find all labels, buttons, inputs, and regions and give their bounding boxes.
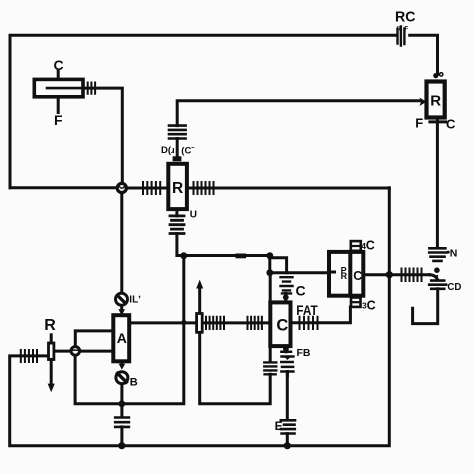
svg-text:FAT: FAT <box>296 303 318 318</box>
svg-text:C: C <box>276 316 288 334</box>
lamp B <box>116 372 128 384</box>
junction dot mid bus right <box>266 252 273 259</box>
junction dot below C box <box>283 346 289 352</box>
pot R bottom-left box <box>49 343 54 360</box>
arrow below A <box>119 364 126 370</box>
hatch ticks mid of A wire <box>206 317 224 329</box>
wire coil bottom corner to mid bus <box>177 234 270 256</box>
junction dot cap C bottom <box>283 294 289 300</box>
hatch ticks right of center R <box>194 182 214 194</box>
svg-text:F: F <box>415 116 423 131</box>
svg-text:E: E <box>275 419 283 433</box>
svg-text:A: A <box>117 330 127 346</box>
hatch ticks left of pot R <box>21 350 37 362</box>
dot and circle at right R top <box>433 73 438 78</box>
junction dot B line on loop <box>118 400 125 407</box>
capacitor CD plates <box>429 281 446 289</box>
capacitor plates on B line <box>115 418 129 427</box>
arrow into right R <box>419 97 426 106</box>
wire C box bottom-left down to cap <box>269 346 272 362</box>
svg-text:B: B <box>130 377 138 389</box>
hatch ticks right of junction S <box>143 182 160 194</box>
wire circle node right to A box <box>80 350 114 353</box>
wire bottom cap to U-loop and up-arrow riser <box>200 287 271 404</box>
wire right riser node to switch <box>389 273 429 276</box>
wire center R to right riser <box>187 187 389 190</box>
svg-text:U: U <box>190 210 197 221</box>
hatch ticks left of C box <box>248 317 262 329</box>
wire long horizontal y=101 from cap stem to right R <box>177 101 419 126</box>
junction dot switch <box>434 267 440 273</box>
svg-text:R: R <box>430 93 441 110</box>
wire junction S left arm <box>10 186 117 189</box>
svg-text:N: N <box>450 248 458 260</box>
wire left loop: down from node, bottom, up to circle node <box>75 256 184 404</box>
capacitor C plates above C box <box>281 277 293 293</box>
wire node to IC left pin <box>270 271 335 274</box>
wire circle node up-over to A box <box>75 331 113 347</box>
capacitor FB below C box <box>284 346 287 352</box>
wire B lamp down through cap to bottom bus <box>120 384 123 446</box>
junction dot right riser <box>386 271 393 278</box>
pot R down arrow <box>50 360 53 385</box>
wire circle node left to pot R <box>54 350 71 353</box>
svg-text:C: C <box>366 239 375 253</box>
label N <box>447 251 450 254</box>
hatch ticks FAT right of C box <box>300 317 318 329</box>
svg-text:D(ɹ: D(ɹ <box>161 145 175 156</box>
svg-text:(Cˉ: (Cˉ <box>181 146 194 157</box>
junction dot mid bus left <box>180 252 187 259</box>
junction circle bottom-left <box>71 347 80 356</box>
junction dot node before IC <box>266 269 273 276</box>
wire top bus and left border <box>10 35 438 187</box>
thick segment on mid bus <box>236 254 247 259</box>
wire C box right side to 3C pin <box>291 307 351 323</box>
resistor R center box <box>168 164 187 209</box>
component C/F box <box>34 79 83 96</box>
wire A box right long horizontal to C box <box>129 321 270 324</box>
IC pin stub inside <box>329 271 335 274</box>
svg-text:R: R <box>397 27 402 33</box>
wire step from mid bus node to cap C lead <box>270 258 287 273</box>
lamp IL <box>116 293 128 305</box>
hatch ticks right of C/F <box>88 83 95 94</box>
wire vertical node to C box top <box>269 273 272 303</box>
svg-text:ILʼ: ILʼ <box>129 294 141 306</box>
switch curve to CD <box>430 275 438 280</box>
wire junction S right arm to R <box>126 187 168 190</box>
wire C/F output to junction S <box>83 88 122 183</box>
pin box 3C <box>351 298 361 307</box>
coil U below center R <box>175 209 178 216</box>
svg-text:RC: RC <box>395 9 416 26</box>
pin box 4C <box>351 241 361 251</box>
resistor R top-right box <box>427 82 445 118</box>
svg-text:F: F <box>405 27 409 33</box>
svg-text:C: C <box>446 117 456 132</box>
capacitor plates above center R <box>169 126 186 139</box>
stem and thick plate above center R <box>176 139 179 157</box>
hatch ticks right of IC output <box>402 269 422 282</box>
bracket below CD <box>413 289 438 324</box>
wire right R bottom to battery N <box>436 118 439 247</box>
amplifier A box <box>113 315 129 361</box>
junction dot bottom bus left <box>118 442 125 449</box>
capacitor RC plates <box>398 27 405 46</box>
battery E plates <box>281 420 295 433</box>
svg-text:C: C <box>367 298 376 312</box>
IC outer box P/R <box>329 252 363 296</box>
junction circle S top <box>117 183 126 192</box>
svg-text:R: R <box>44 317 56 334</box>
wire bottom bus with left and right risers <box>10 188 390 446</box>
box C component <box>270 302 290 346</box>
plate below right R <box>430 120 446 123</box>
svg-text:FB: FB <box>297 347 311 359</box>
wire junction S down to lamp IL <box>120 193 123 294</box>
capacitor plates left-bottom of C box <box>264 362 276 374</box>
svg-text:F: F <box>54 112 63 128</box>
potentiometer box on A wire <box>197 314 203 333</box>
svg-text:R: R <box>172 180 183 197</box>
arrow into A top <box>118 309 125 315</box>
junction dot bottom bus mid <box>284 442 291 449</box>
wire FB cap stem down to battery E <box>286 372 289 446</box>
junction dot A wire crossing <box>181 320 186 325</box>
svg-text:C: C <box>54 57 64 73</box>
svg-text:C: C <box>353 269 362 283</box>
svg-text:R: R <box>341 271 348 281</box>
wire IC right pin to right riser <box>363 273 389 276</box>
svg-text:CD: CD <box>447 281 461 293</box>
battery N plates <box>429 248 446 261</box>
svg-text:C: C <box>296 283 306 299</box>
IC inner column <box>348 252 352 296</box>
wire node down mid <box>268 256 271 273</box>
up arrow of potentiometer <box>196 280 203 289</box>
